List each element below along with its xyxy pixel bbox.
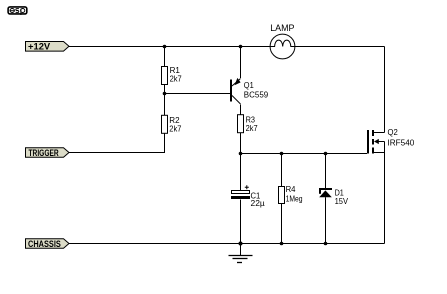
- resistor R1: [162, 65, 183, 85]
- wire chassis rail: [69, 243, 385, 245]
- wire source vertical: [384, 142, 386, 244]
- node dot gate rail R4: [280, 152, 284, 156]
- node dot chassis R4: [280, 242, 284, 246]
- terminal TRIGGER: [26, 148, 70, 158]
- wire R3 bottom vertical: [240, 133, 242, 154]
- svg-text:22µ: 22µ: [251, 198, 266, 208]
- svg-text:1Meg: 1Meg: [286, 193, 303, 203]
- svg-text:BC559: BC559: [244, 90, 269, 100]
- wire C1 top vertical: [240, 154, 242, 191]
- terminal +12V: [26, 42, 70, 52]
- svg-text:LAMP: LAMP: [270, 23, 294, 33]
- mosfet Q2: [368, 127, 415, 153]
- svg-text:2k7: 2k7: [246, 123, 258, 133]
- svg-text:Q1: Q1: [244, 80, 254, 90]
- capacitor C1: [231, 185, 265, 208]
- svg-text:+12V: +12V: [28, 42, 50, 52]
- resistor R3: [238, 115, 258, 134]
- wire Q1 collector vertical: [240, 105, 242, 115]
- wire drain vertical: [384, 47, 386, 133]
- resistor R4: [279, 184, 303, 203]
- ESP logo: [8, 7, 27, 15]
- wire R4 bottom vertical: [281, 204, 283, 244]
- terminal CHASSIS: [26, 239, 70, 249]
- node dot gate rail D1: [324, 152, 328, 156]
- wire Q1 emitter vertical: [240, 47, 242, 79]
- transistor Q1: [231, 78, 269, 104]
- node dot chassis D1: [324, 242, 328, 246]
- wire R2 bottom vertical: [164, 133, 166, 153]
- wire gate node rail: [241, 153, 368, 155]
- lamp: [270, 23, 295, 59]
- wire R4 top vertical: [281, 154, 283, 187]
- svg-text:2k7: 2k7: [170, 74, 182, 84]
- node dot divider: [163, 92, 167, 96]
- svg-text:TRIGGER: TRIGGER: [29, 148, 60, 158]
- ground: [229, 244, 253, 263]
- zener diode D1: [319, 187, 348, 206]
- node dot top rail R1: [163, 45, 167, 49]
- wire trigger horizontal: [69, 152, 165, 154]
- wire Q1 base horizontal: [165, 93, 231, 95]
- node dot gate rail C1: [239, 152, 243, 156]
- wire +12V rail: [69, 46, 385, 48]
- wire R1-R2 middle vertical: [164, 85, 166, 116]
- node dot chassis C1: [239, 242, 243, 246]
- svg-text:15V: 15V: [335, 196, 349, 206]
- svg-text:2k7: 2k7: [169, 123, 181, 133]
- wire C1 bottom vertical: [240, 200, 242, 244]
- wire D1 top vertical: [325, 154, 327, 190]
- svg-text:IRF540: IRF540: [388, 138, 415, 148]
- node dot top rail Q1: [239, 45, 243, 49]
- wire R1 top vertical: [164, 47, 166, 67]
- svg-text:CHASSIS: CHASSIS: [28, 239, 61, 249]
- svg-text:Q2: Q2: [388, 127, 399, 137]
- resistor R2: [162, 115, 182, 133]
- wire D1 bottom vertical: [325, 197, 327, 243]
